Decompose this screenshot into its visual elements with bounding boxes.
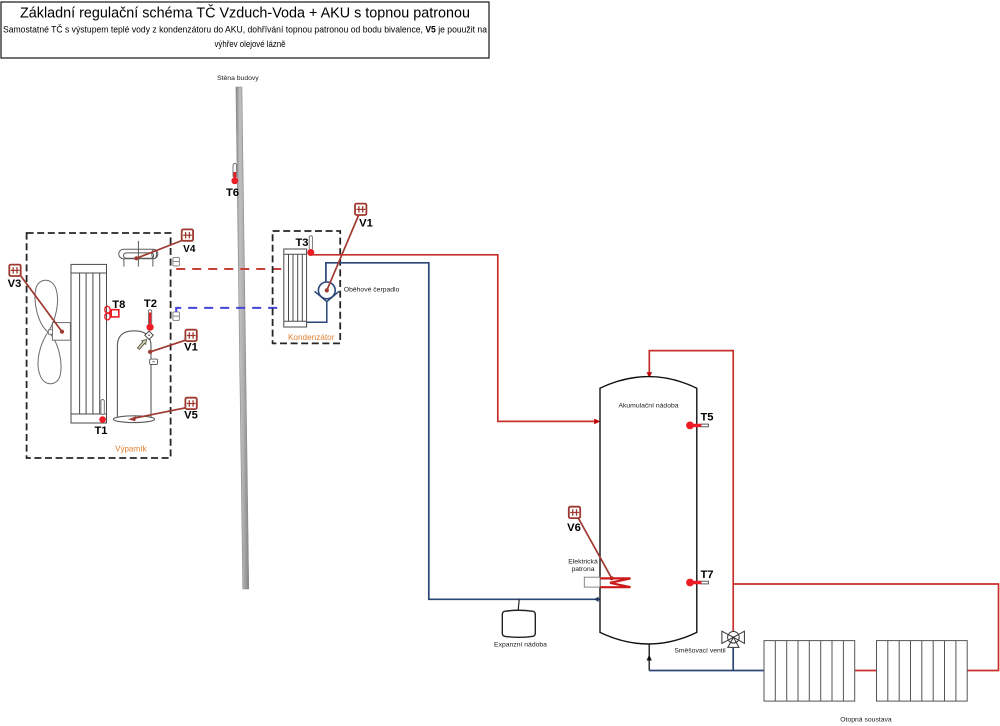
condenser dashed box <box>273 231 341 343</box>
wire refrigerant suction (blue dashed) <box>176 308 284 312</box>
sensor V6 <box>569 507 580 518</box>
wire refrigerant hot gas (red dashed) <box>176 268 284 270</box>
heating element <box>600 578 630 587</box>
svg-text:V1: V1 <box>359 218 373 230</box>
wire valve outlet (blue) <box>732 648 734 671</box>
pump pipe to exchanger <box>307 302 327 323</box>
svg-text:výhřev olejové lázně: výhřev olejové lázně <box>215 39 286 49</box>
svg-text:Otopná soustava: Otopná soustava <box>840 717 892 724</box>
svg-text:Oběhové čerpadlo: Oběhové čerpadlo <box>344 286 400 293</box>
svg-text:Směšovací ventil: Směšovací ventil <box>674 647 726 654</box>
svg-text:Expanzní nádoba: Expanzní nádoba <box>494 642 547 649</box>
coupling bottom <box>173 312 180 321</box>
title block frame <box>1 2 489 58</box>
sensor V4 <box>182 229 193 240</box>
svg-text:patrona: patrona <box>571 566 594 573</box>
svg-text:T5: T5 <box>700 412 713 424</box>
wire radiator link (red) <box>855 670 877 672</box>
svg-text:T1: T1 <box>94 425 107 437</box>
mixing valve <box>722 631 745 647</box>
thermometer T6 <box>226 164 239 200</box>
svg-text:T3: T3 <box>295 237 308 249</box>
wire V6 leader <box>578 518 612 579</box>
svg-text:V6: V6 <box>567 522 581 534</box>
pump <box>318 282 335 299</box>
radiator 2 <box>877 641 968 702</box>
compressor port box <box>150 359 158 364</box>
sensor V1 (pump) <box>355 204 366 215</box>
sensor V1 (compressor) <box>185 330 196 341</box>
svg-text:T8: T8 <box>112 299 125 311</box>
svg-text:Stěna budovy: Stěna budovy <box>217 75 259 82</box>
svg-text:V3: V3 <box>8 278 22 290</box>
compressor valve diamond <box>145 331 153 339</box>
sensor V3 <box>9 265 20 276</box>
svg-text:T7: T7 <box>700 569 713 581</box>
svg-text:Výparník: Výparník <box>115 444 147 454</box>
sensor T8 icon <box>104 306 118 320</box>
svg-text:V1: V1 <box>184 342 198 354</box>
wire V5 leader <box>133 408 186 419</box>
sensor T5 <box>686 412 713 430</box>
svg-text:Základní regulační schéma TČ V: Základní regulační schéma TČ Vzduch-Voda… <box>20 5 470 22</box>
wire V1 pump leader <box>327 216 359 291</box>
coupling top <box>173 257 180 266</box>
wire V3 leader <box>21 276 63 332</box>
sensor V5 <box>185 398 196 409</box>
wire tank top to mixing valve (red) <box>649 351 733 631</box>
wire V1 compressor leader <box>150 340 185 352</box>
svg-text:Kondenzátor: Kondenzátor <box>288 332 335 342</box>
wire V4 leader <box>136 241 182 259</box>
svg-text:Elektrická: Elektrická <box>568 559 598 566</box>
wire heating supply branch (red) <box>733 584 998 671</box>
compressor <box>117 331 151 418</box>
svg-text:Samostatné TČ s výstupem teplé: Samostatné TČ s výstupem teplé vody z ko… <box>3 25 487 35</box>
svg-text:V4: V4 <box>183 244 196 255</box>
pump circuit blue <box>326 263 600 600</box>
heating element terminal <box>584 577 600 587</box>
four-way valve <box>119 241 158 267</box>
tank drain to return <box>648 644 650 671</box>
sensor T7 <box>686 569 713 587</box>
accumulator tank <box>600 377 697 644</box>
thermometer T3 <box>295 236 314 256</box>
radiator 1 <box>764 641 855 702</box>
condenser exchanger <box>284 249 307 327</box>
wall <box>236 87 249 589</box>
evaporator coil <box>71 264 107 423</box>
evaporator dashed box <box>27 233 171 458</box>
wire radiator return (blue) <box>649 670 764 672</box>
svg-text:Akumulační nádoba: Akumulační nádoba <box>618 403 678 410</box>
svg-text:V5: V5 <box>184 410 198 422</box>
thermometer T1 <box>94 400 107 437</box>
svg-text:T2: T2 <box>144 298 157 310</box>
fan motor <box>52 323 70 341</box>
thermometer T2 <box>144 298 157 331</box>
fan <box>35 280 61 384</box>
compressor arrow <box>138 340 147 350</box>
expansion vessel <box>518 599 519 611</box>
wire hot supply condenser to tank (red) <box>311 255 596 422</box>
svg-text:T6: T6 <box>226 187 239 199</box>
